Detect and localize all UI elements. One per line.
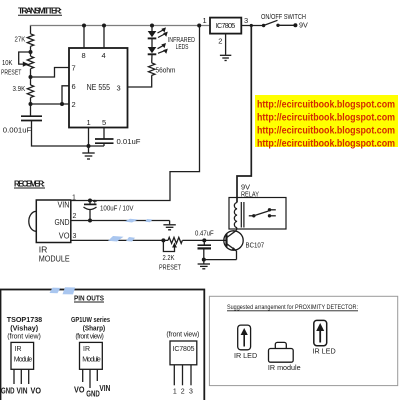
svg-text:LEDS: LEDS	[176, 42, 189, 51]
svg-text:(Sharp): (Sharp)	[83, 324, 106, 333]
svg-text:(front view): (front view)	[166, 332, 199, 339]
svg-text:+: +	[93, 197, 98, 206]
svg-text:7: 7	[72, 64, 76, 73]
svg-text:http://ecircuitbook.blogspot.c: http://ecircuitbook.blogspot.com	[257, 113, 395, 124]
svg-text:GND: GND	[1, 386, 15, 395]
svg-text:(Vishay): (Vishay)	[10, 324, 39, 333]
svg-text:RELAY: RELAY	[241, 190, 259, 199]
svg-text:0.01uF: 0.01uF	[117, 137, 141, 146]
svg-text:3: 3	[117, 84, 121, 93]
svg-text:9V: 9V	[299, 21, 308, 30]
svg-text:0.001uF: 0.001uF	[3, 126, 32, 135]
svg-text:http://ecircuitbook.blogspot.c: http://ecircuitbook.blogspot.com	[257, 138, 395, 149]
svg-text:56ohm: 56ohm	[156, 65, 176, 74]
svg-text:0.47uF: 0.47uF	[195, 228, 214, 237]
svg-text:VO: VO	[31, 386, 42, 395]
svg-text:5: 5	[102, 118, 106, 127]
svg-text:IR: IR	[83, 346, 90, 353]
svg-text:6: 6	[72, 82, 76, 91]
svg-text:3: 3	[189, 388, 193, 395]
svg-text:GND: GND	[55, 218, 70, 227]
svg-text:2: 2	[72, 100, 76, 109]
svg-text:VIN: VIN	[58, 201, 70, 210]
svg-text:IR LED: IR LED	[234, 351, 257, 360]
svg-text:VIN: VIN	[17, 386, 28, 395]
svg-text:1: 1	[203, 16, 207, 25]
svg-text:VO: VO	[59, 232, 70, 241]
svg-text:Suggested arrangement for PROX: Suggested arrangement for PROXIMITY DETE…	[227, 304, 358, 311]
svg-text:(front view): (front view)	[7, 334, 41, 341]
svg-text:IR module: IR module	[268, 363, 301, 372]
svg-text:1: 1	[87, 118, 91, 127]
svg-text:2: 2	[181, 388, 185, 395]
svg-text:3: 3	[244, 16, 248, 25]
svg-text:(front view): (front view)	[75, 334, 104, 341]
svg-text:NE 555: NE 555	[87, 82, 111, 92]
svg-text:http://ecircuitbook.blogspot.c: http://ecircuitbook.blogspot.com	[257, 100, 395, 111]
svg-text:PRESET: PRESET	[1, 68, 22, 77]
svg-text:BC107: BC107	[246, 240, 265, 249]
svg-text:MODULE: MODULE	[39, 253, 70, 263]
svg-text:IR LED: IR LED	[313, 347, 336, 356]
svg-text:IR: IR	[15, 346, 22, 353]
svg-text:VIN: VIN	[99, 384, 110, 393]
svg-text:VO: VO	[74, 386, 85, 395]
svg-text:2: 2	[73, 213, 77, 220]
svg-text:TRANSMITTER:: TRANSMITTER:	[18, 6, 62, 16]
svg-text:GND: GND	[86, 389, 100, 398]
svg-text:2: 2	[218, 37, 222, 46]
svg-text:100uF / 10V: 100uF / 10V	[100, 204, 134, 213]
svg-text:3.9K: 3.9K	[13, 84, 26, 93]
svg-text:PIN OUTS: PIN OUTS	[74, 293, 104, 302]
svg-text:8: 8	[82, 51, 86, 60]
svg-text:4: 4	[102, 51, 106, 60]
svg-text:RECEIVER:: RECEIVER:	[14, 180, 45, 189]
svg-text:10K: 10K	[2, 58, 13, 67]
svg-text:Module: Module	[82, 357, 101, 364]
svg-text:1: 1	[173, 388, 177, 395]
svg-text:IC7805: IC7805	[173, 346, 195, 353]
svg-text:3: 3	[73, 233, 77, 240]
svg-text:PRESET: PRESET	[159, 262, 181, 271]
svg-text:IC7805: IC7805	[216, 21, 236, 30]
svg-text:http://ecircuitbook.blogspot.c: http://ecircuitbook.blogspot.com	[257, 125, 395, 136]
svg-text:Module: Module	[14, 357, 33, 364]
svg-text:27K: 27K	[15, 35, 26, 44]
svg-text:2.2K: 2.2K	[163, 253, 175, 262]
